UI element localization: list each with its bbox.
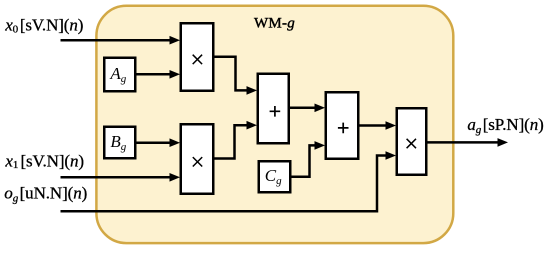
- arrow x1 into multiplier M2: [170, 173, 181, 182]
- arrow M1 into adder S1: [247, 86, 258, 95]
- wire S1 to adder S2: [290, 107, 318, 110]
- enclosure box WM-g: [96, 6, 453, 243]
- coefficient box Cg: [259, 161, 291, 192]
- wire x0 input: [61, 39, 173, 42]
- arrow og into multiplier M3: [386, 151, 397, 160]
- wire Bg to M2: [137, 141, 173, 144]
- svg-text:WM-g: WM-g: [254, 15, 295, 31]
- symbol multiply M2: [193, 157, 202, 166]
- symbol multiply M1: [193, 55, 202, 64]
- wire og input to M3: [61, 156, 389, 212]
- wire M1 to adder S1: [214, 57, 249, 91]
- symbol plus S1: [270, 106, 281, 117]
- adder block S1: [258, 74, 289, 144]
- symbol multiply M3: [407, 139, 416, 148]
- multiplier block M2: [181, 124, 214, 194]
- arrow S1 into adder S2: [315, 104, 326, 113]
- svg-text:x1[sV.N](n): x1[sV.N](n): [4, 151, 84, 171]
- arrow Ag into multiplier M1: [170, 70, 181, 79]
- arrow Cg into adder S2: [315, 141, 326, 150]
- wire output ag: [427, 141, 500, 144]
- wire M2 to adder S1: [214, 125, 249, 158]
- arrow S2 into multiplier M3: [386, 121, 397, 130]
- wire x1 input: [61, 176, 173, 179]
- multiplier block M1: [181, 23, 214, 91]
- arrow x0 into multiplier M1: [170, 36, 181, 45]
- arrow output ag: [498, 138, 509, 147]
- coefficient box Ag: [104, 58, 135, 92]
- symbol plus S2: [338, 123, 349, 134]
- svg-text:x0[sV.N](n): x0[sV.N](n): [4, 15, 83, 35]
- coefficient box Bg: [104, 127, 135, 159]
- adder block S2: [326, 92, 359, 159]
- arrow Bg into multiplier M2: [170, 138, 181, 147]
- multiplier block M3: [397, 108, 427, 175]
- arrow M2 into adder S1: [247, 121, 258, 130]
- wire Cg to adder S2: [291, 145, 317, 176]
- svg-text:og[uN.N](n): og[uN.N](n): [4, 183, 87, 204]
- wire S2 to multiplier M3: [359, 124, 388, 127]
- wire Ag to M1: [137, 73, 173, 76]
- svg-text:ag[sP.N](n): ag[sP.N](n): [467, 115, 543, 136]
